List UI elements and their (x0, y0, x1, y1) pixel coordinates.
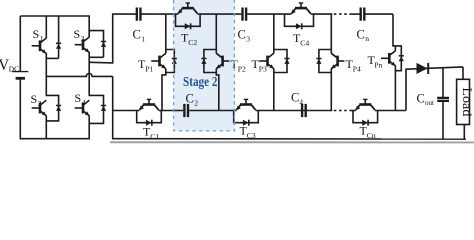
wire S4 emitter to bridge bottom (88, 116, 90, 139)
wire TPn emitter to bottom rail (394, 66, 396, 111)
svg-text:P1: P1 (145, 65, 153, 74)
wire TP4 collector to top rail (330, 14, 332, 49)
transistor TC2 (176, 3, 201, 47)
transistor TC4 (285, 3, 314, 48)
svg-text:C2: C2 (188, 38, 197, 47)
wire node A to bottom rail (with crossover hop) (46, 74, 112, 140)
svg-text:3: 3 (246, 35, 250, 44)
source Vdc battery symbol (0, 16, 28, 139)
node Stage 2 highlighted region (fill) (174, 0, 235, 131)
svg-text:C: C (417, 92, 425, 106)
wire TP1 collector to top rail (165, 14, 167, 49)
svg-text:1: 1 (40, 34, 44, 43)
svg-text:2: 2 (194, 99, 198, 108)
wire TP2 collector to top rail (215, 14, 217, 49)
svg-text:Pn: Pn (374, 61, 382, 70)
wire TP3 collector to top rail (273, 14, 275, 49)
transistor TP4 (316, 50, 361, 74)
wire S3 emitter to node B / S4 collector link (88, 52, 90, 96)
wire bottom return (112, 138, 466, 140)
svg-text:S: S (75, 91, 82, 105)
wire bottom rail up to output diode (405, 69, 408, 110)
wire S2 emitter to bridge bottom (45, 116, 47, 139)
svg-text:S: S (33, 27, 40, 41)
wire TP3 emitter to bottom rail (273, 73, 275, 111)
svg-text:4: 4 (299, 98, 303, 107)
label Stage 2 (183, 74, 218, 89)
wire TP1 emitter to bottom rail (162, 73, 166, 111)
load (Load box) (457, 79, 474, 124)
wire bottom rail segment 1 (112, 110, 139, 112)
capacitor C4 (291, 91, 306, 118)
svg-text:n: n (365, 34, 369, 43)
transistor TP1 (138, 50, 177, 74)
svg-text:2: 2 (38, 99, 42, 108)
transistor TP3 (252, 50, 290, 74)
svg-text:C: C (357, 28, 365, 42)
svg-text:C: C (186, 92, 194, 106)
wire TP4 emitter to bottom rail (330, 73, 332, 111)
diode D output (417, 63, 429, 74)
svg-text:P2: P2 (238, 65, 246, 74)
wire top rail down-feed to TPn collector (392, 14, 394, 46)
svg-text:3: 3 (81, 34, 85, 43)
svg-text:C: C (291, 91, 299, 105)
capacitor C1 (133, 8, 146, 44)
wire S1 emitter to node A (45, 53, 47, 77)
svg-text:S: S (74, 27, 81, 41)
wire node B to top rail (90, 14, 113, 63)
svg-text:C4: C4 (300, 39, 309, 48)
svg-text:DC: DC (9, 64, 19, 73)
transistor S1 (IGBT with antiparallel diode) (32, 16, 62, 58)
svg-text:Load: Load (460, 87, 474, 117)
wire top rail segment 2b (197, 13, 241, 15)
wire top rail segment 2 (141, 13, 178, 15)
svg-text:out: out (425, 99, 434, 107)
svg-text:P4: P4 (353, 65, 361, 74)
wire bottom rail segment 2b (256, 110, 333, 112)
svg-text:C1: C1 (150, 132, 159, 141)
capacitor C3 (238, 8, 251, 44)
wire bottom rail segment 3b (375, 110, 406, 112)
wire top rail dashed continuation (334, 13, 350, 15)
wire top rail segment 4 (350, 13, 360, 15)
transistor TPn (368, 46, 404, 71)
wire top rail segment 5 (365, 13, 393, 15)
svg-text:P3: P3 (259, 65, 267, 74)
wire top rail segment 3 (247, 13, 291, 15)
wire load bottom return (463, 125, 465, 140)
wire scan artifact line (110, 141, 474, 143)
transistor TCn (353, 99, 378, 140)
transistor TC3 (234, 99, 259, 140)
svg-text:C: C (238, 28, 246, 42)
transistor S3 (IGBT with antiparallel diode) (74, 16, 107, 57)
svg-text:S: S (31, 92, 38, 106)
transistor S2 (IGBT with antiparallel diode) (31, 76, 62, 121)
svg-text:4: 4 (82, 98, 86, 107)
wire bottom rail segment 1b (159, 110, 184, 112)
wire bridge bottom (Vdc- to S2/S4 emitters) (20, 138, 90, 140)
wire bottom rail segment 3 (351, 110, 356, 112)
transistor S4 (IGBT with antiparallel diode) (75, 91, 107, 123)
svg-text:C: C (133, 28, 141, 42)
wire bottom rail dashed continuation (334, 110, 351, 112)
node Stage 2 dashed border (174, 0, 235, 131)
wire TP2 emitter to bottom rail (216, 73, 219, 111)
wire bottom rail segment 2 (189, 110, 236, 112)
svg-text:1: 1 (141, 35, 145, 44)
svg-text:Stage 2: Stage 2 (183, 74, 218, 89)
wire output node (406, 67, 463, 69)
capacitor C2 (184, 92, 198, 118)
wire top rail segment 3b (311, 13, 333, 15)
wire output to load (462, 67, 464, 79)
transistor TC1 (137, 99, 162, 141)
capacitor Cn (357, 8, 370, 44)
wire top rail segment 1 (112, 13, 136, 15)
capacitor Cout (417, 68, 450, 140)
transistor TP2 (201, 50, 246, 74)
wire bridge top rail (Vdc+ to S1/S3) (20, 15, 90, 17)
